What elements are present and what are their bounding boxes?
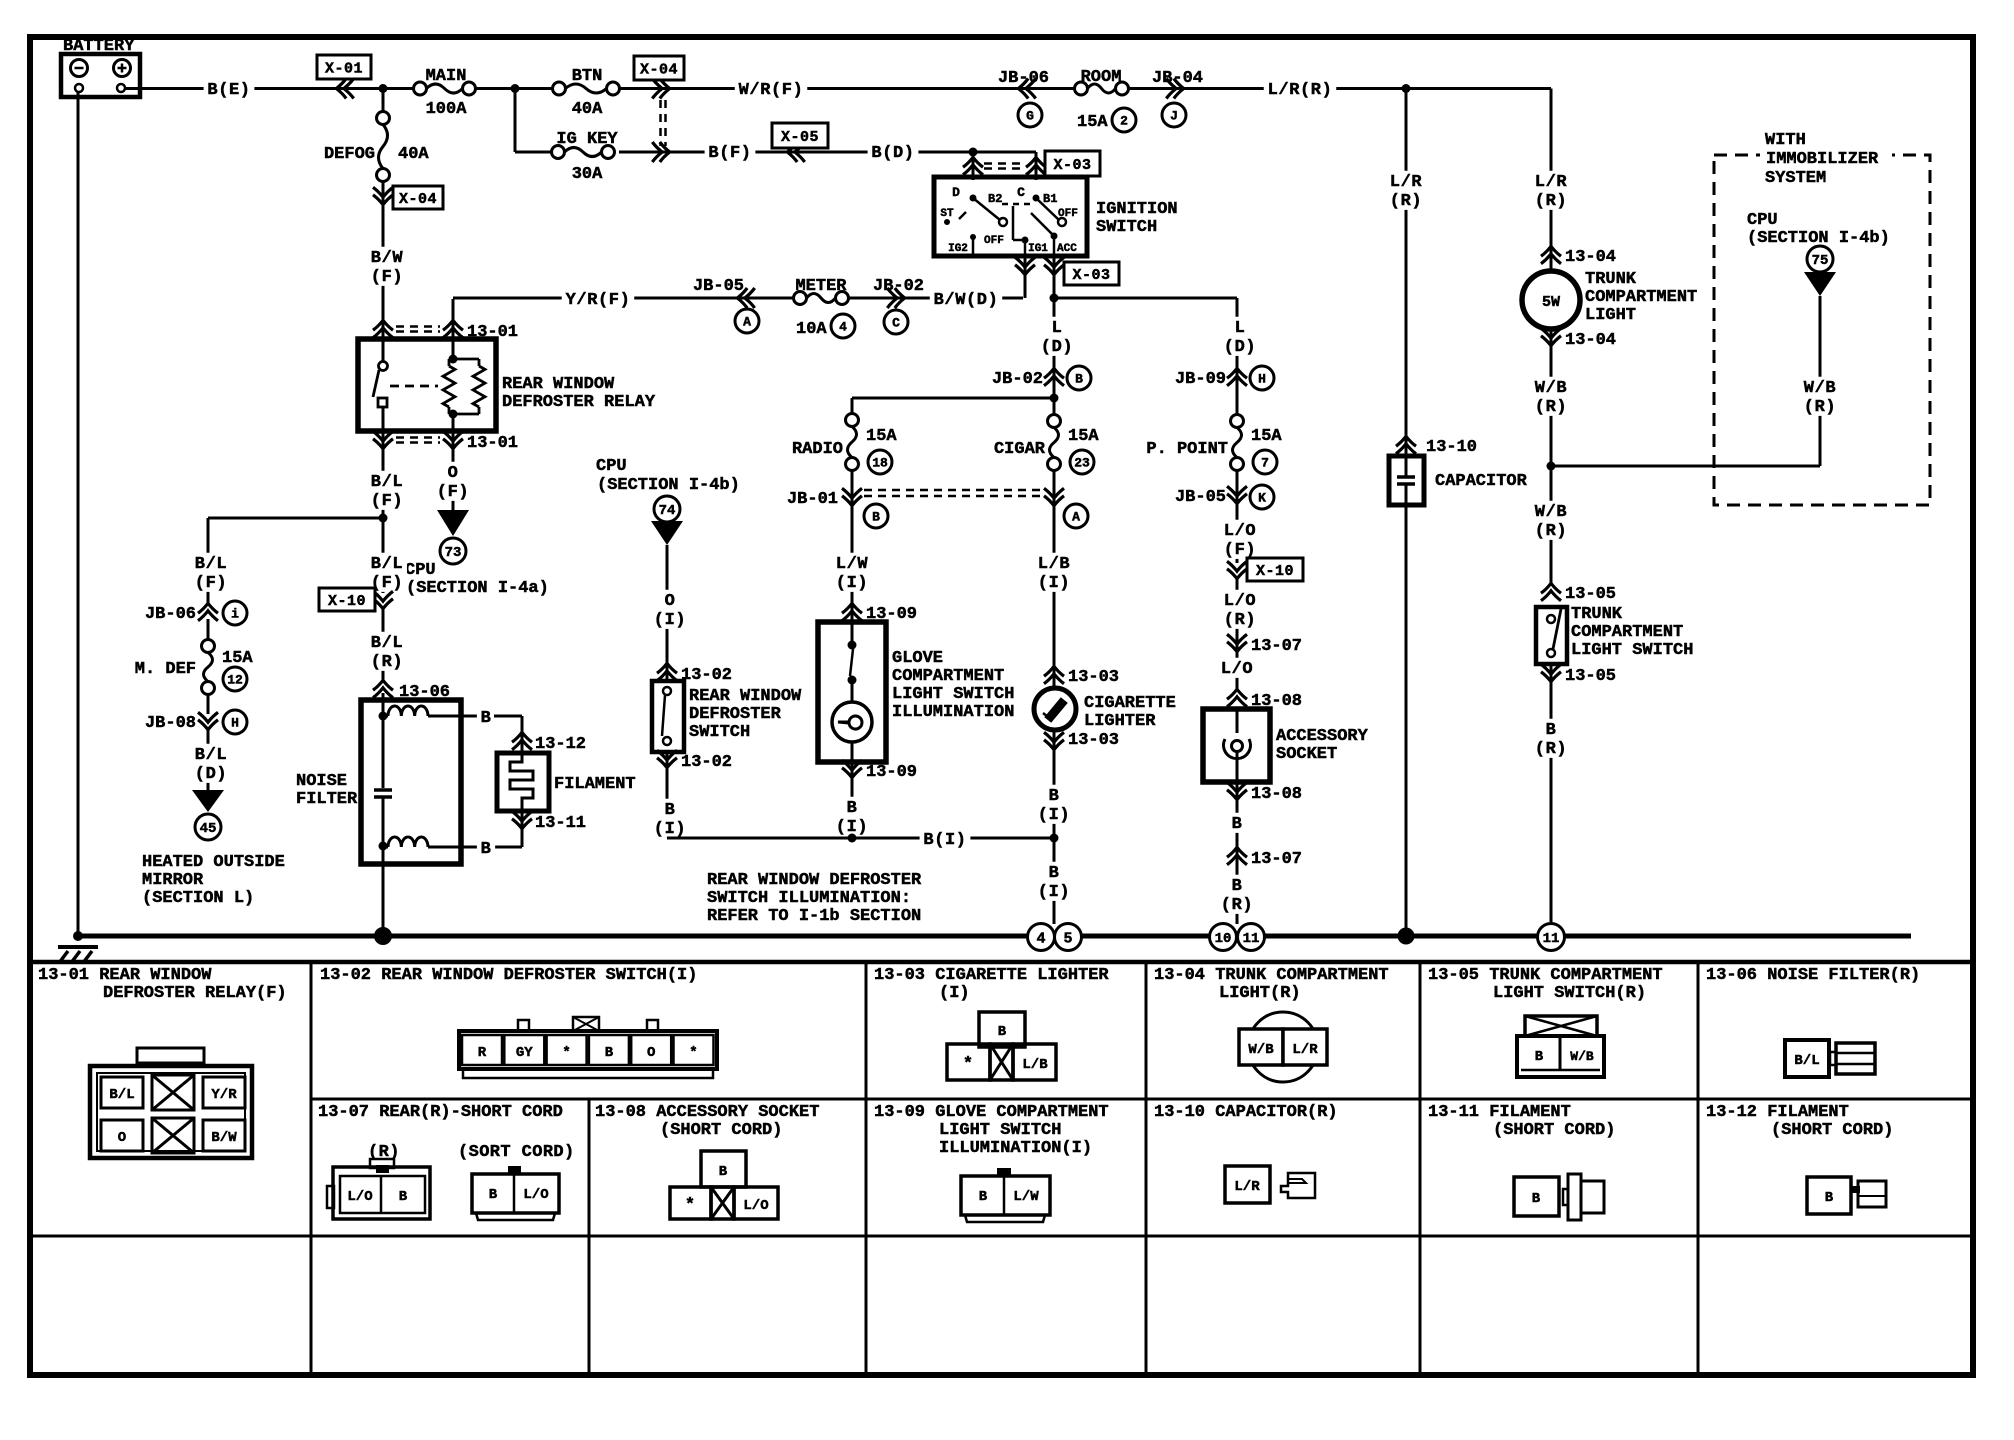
svg-text:B: B [481, 840, 492, 859]
cigarette lighter [1034, 688, 1176, 731]
connector X-04 (DEFOG branch) [373, 181, 443, 243]
svg-text:X-03: X-03 [1072, 267, 1110, 284]
svg-text:B: B [399, 1189, 408, 1205]
svg-text:IG2: IG2 [948, 243, 968, 255]
wire label Y/R(F) [562, 289, 635, 309]
connector 13-02 (top) [657, 663, 732, 685]
svg-text:REFER TO I-1b SECTION: REFER TO I-1b SECTION [707, 907, 921, 926]
svg-text:13-03: 13-03 [1068, 731, 1119, 750]
svg-text:13-02: 13-02 [681, 666, 732, 685]
svg-text:CPU: CPU [596, 457, 627, 476]
wire L(D) cigar column [1037, 298, 1077, 414]
svg-text:(SECTION L): (SECTION L) [142, 889, 254, 908]
svg-text:B1: B1 [1043, 192, 1057, 206]
svg-text:REAR WINDOW DEFROSTER: REAR WINDOW DEFROSTER [707, 871, 922, 890]
svg-text:2: 2 [1120, 114, 1128, 129]
glove compartment light switch illumination box [818, 622, 1014, 762]
svg-text:(D): (D) [1224, 338, 1256, 357]
ground symbol [58, 931, 98, 963]
svg-text:B: B [872, 510, 880, 525]
svg-text:*: * [963, 1055, 973, 1074]
wire label L/O (R) [1220, 590, 1260, 630]
svg-text:(I): (I) [1038, 883, 1070, 902]
svg-text:(R): (R) [1390, 192, 1422, 211]
svg-text:B(I): B(I) [923, 831, 966, 850]
svg-text:4: 4 [839, 320, 847, 335]
svg-text:(SECTION I-4b): (SECTION I-4b) [597, 476, 740, 495]
ground point 4 and 5 [1028, 924, 1082, 951]
svg-text:B: B [1232, 877, 1243, 896]
svg-text:73: 73 [445, 545, 462, 561]
svg-text:13-02 REAR WINDOW DEFROSTER SW: 13-02 REAR WINDOW DEFROSTER SWITCH(I) [320, 966, 697, 985]
svg-text:13-08 ACCESSORY SOCKET: 13-08 ACCESSORY SOCKET [595, 1103, 819, 1122]
svg-text:LIGHTER: LIGHTER [1084, 712, 1156, 731]
svg-text:SWITCH: SWITCH [689, 723, 750, 742]
wire label B (R) trunk [1531, 719, 1571, 759]
junction node B/L(F) split [379, 514, 388, 523]
wire B(I) bus [667, 829, 1054, 850]
svg-text:L/O: L/O [743, 1198, 768, 1214]
svg-text:DEFROSTER: DEFROSTER [689, 705, 782, 724]
svg-text:B: B [1049, 864, 1060, 883]
connector X-03 (upper) [963, 151, 1100, 176]
connector X-05 [772, 123, 828, 162]
svg-text:JB-05: JB-05 [693, 277, 744, 296]
svg-text:i: i [231, 607, 239, 622]
fuse CIGAR 15A with circuit 23 [994, 415, 1099, 689]
connector 13-08 (bottom) [1227, 782, 1302, 924]
svg-text:L: L [1052, 319, 1063, 338]
svg-text:(D): (D) [1041, 338, 1073, 357]
noise filter box [296, 693, 478, 864]
wire label L/O (F) [1220, 520, 1260, 560]
svg-text:100A: 100A [426, 100, 468, 119]
svg-text:W/R(F): W/R(F) [739, 81, 804, 100]
wire label B (bottom) [477, 838, 522, 859]
svg-text:13-04: 13-04 [1565, 248, 1616, 267]
svg-text:10A: 10A [796, 320, 827, 339]
svg-text:13-01 REAR WINDOW: 13-01 REAR WINDOW [38, 966, 212, 985]
junction block JB-01 with pin B [787, 488, 1040, 528]
fuse IG KEY 30A [552, 130, 619, 184]
svg-text:13-02: 13-02 [681, 753, 732, 772]
svg-text:B: B [719, 1164, 728, 1180]
svg-text:10: 10 [1215, 931, 1232, 947]
svg-text:13-07: 13-07 [1251, 850, 1302, 869]
svg-text:Y/R(F): Y/R(F) [566, 291, 631, 310]
svg-text:DEFROSTER RELAY(F): DEFROSTER RELAY(F) [103, 984, 287, 1003]
fuse BTN 40A [553, 67, 620, 119]
svg-text:L/B: L/B [1038, 555, 1070, 574]
wire to immobilizer CPU [1551, 465, 1820, 468]
svg-text:13-07 REAR(R)-SHORT CORD: 13-07 REAR(R)-SHORT CORD [318, 1103, 563, 1122]
wire label L/R(R) [1264, 79, 1337, 99]
wire label B(I) below junction [1034, 862, 1074, 902]
junction block JB-05 with pin A [693, 277, 759, 333]
svg-text:L/W: L/W [1013, 1189, 1039, 1205]
svg-text:DEFOG: DEFOG [324, 145, 375, 164]
svg-text:(I): (I) [939, 984, 970, 1003]
svg-text:MIRROR: MIRROR [142, 871, 204, 890]
svg-text:BTN: BTN [572, 67, 603, 86]
table cell 13-05 TRUNK COMPARTMENT LIGHT SWITCH(R) [1428, 966, 1663, 1077]
junction block JB-08 with pin H [145, 710, 247, 790]
svg-text:B(D): B(D) [871, 144, 914, 163]
svg-text:13-12 FILAMENT: 13-12 FILAMENT [1706, 1103, 1849, 1122]
svg-text:B: B [979, 1189, 988, 1205]
connector X-04 (top row) [634, 56, 684, 146]
connector 13-01 (bottom) [373, 431, 518, 453]
svg-text:A: A [743, 315, 751, 330]
svg-text:B/L: B/L [371, 555, 403, 574]
svg-text:13-10: 13-10 [1426, 438, 1477, 457]
svg-text:O: O [448, 464, 459, 483]
svg-text:13-04 TRUNK COMPARTMENT: 13-04 TRUNK COMPARTMENT [1154, 966, 1389, 985]
svg-text:JB-09: JB-09 [1175, 370, 1226, 389]
svg-text:L/R: L/R [1535, 173, 1568, 192]
battery [61, 37, 140, 97]
junction block JB-06 with pin i [145, 601, 247, 640]
wire B/L to heated mirror branch [208, 517, 383, 520]
ground point 11 trunk [1538, 924, 1565, 951]
svg-text:B: B [1049, 787, 1060, 806]
table cell 13-02 REAR WINDOW DEFROSTER SWITCH(I) [320, 966, 717, 1078]
capacitor box [1389, 456, 1528, 505]
connector 13-02 (bottom) [657, 750, 732, 838]
svg-text:B/L: B/L [195, 555, 227, 574]
svg-text:(R): (R) [1535, 740, 1567, 759]
svg-text:13-09 GLOVE COMPARTMENT: 13-09 GLOVE COMPARTMENT [874, 1103, 1109, 1122]
svg-text:W/B: W/B [1570, 1049, 1594, 1064]
svg-text:D: D [952, 185, 960, 200]
svg-text:(F): (F) [195, 574, 227, 593]
svg-text:(I): (I) [1038, 806, 1070, 825]
svg-text:OFF: OFF [984, 235, 1004, 247]
svg-text:B/W: B/W [211, 1130, 237, 1146]
CPU output 73 (SECTION I-4a) [405, 510, 549, 598]
svg-text:B(F): B(F) [708, 144, 751, 163]
svg-text:IGNITION: IGNITION [1096, 200, 1178, 219]
wire L/R(R) trunk column [1531, 89, 1571, 272]
svg-text:X-10: X-10 [1256, 563, 1294, 580]
svg-text:B: B [1075, 372, 1083, 387]
wire L(D) accessory column [1220, 298, 1260, 414]
svg-text:B(E): B(E) [207, 81, 250, 100]
svg-text:B: B [1825, 1190, 1834, 1206]
svg-text:11: 11 [1243, 931, 1260, 947]
svg-text:13-03 CIGARETTE LIGHTER: 13-03 CIGARETTE LIGHTER [874, 966, 1109, 985]
table cell 13-11 FILAMENT (SHORT CORD) [1428, 1103, 1615, 1220]
svg-text:ACCESSORY: ACCESSORY [1276, 727, 1369, 746]
svg-text:15A: 15A [1068, 427, 1099, 446]
wire label B (I) [650, 799, 690, 839]
svg-text:B/W: B/W [371, 249, 404, 268]
wire capacitor to ground bus [1405, 505, 1408, 936]
svg-text:13-04: 13-04 [1565, 331, 1616, 350]
fuse ROOM 15A with circuit 2 [1075, 68, 1137, 132]
svg-text:B: B [665, 801, 676, 820]
svg-text:JB-02: JB-02 [992, 370, 1043, 389]
svg-text:P. POINT: P. POINT [1146, 440, 1228, 459]
svg-text:RADIO: RADIO [792, 440, 843, 459]
svg-text:13-05 TRUNK COMPARTMENT: 13-05 TRUNK COMPARTMENT [1428, 966, 1663, 985]
svg-text:*: * [689, 1045, 697, 1061]
svg-text:Y/R: Y/R [211, 1087, 237, 1103]
svg-text:B: B [1532, 1191, 1541, 1207]
junction block JB-02 with pin C [873, 277, 924, 334]
wire IG KEY row B(F)/B(D) [515, 89, 973, 153]
junction node capacitor at ground bus [1398, 928, 1415, 945]
rear window defroster switch box [652, 681, 802, 752]
svg-text:L/O: L/O [1224, 592, 1256, 611]
svg-text:FILAMENT: FILAMENT [554, 775, 636, 794]
wire label B(D) [868, 142, 919, 162]
svg-text:(R): (R) [1804, 398, 1836, 417]
wire label B(F) [705, 142, 756, 162]
svg-text:B: B [1535, 1049, 1544, 1065]
wire label W/B (R) lower [1531, 466, 1571, 585]
svg-text:B: B [605, 1045, 614, 1061]
svg-text:L/O: L/O [523, 1187, 548, 1203]
svg-text:(R): (R) [1535, 522, 1567, 541]
svg-text:DEFROSTER RELAY: DEFROSTER RELAY [502, 393, 656, 412]
svg-text:15A: 15A [1251, 427, 1282, 446]
svg-text:X-10: X-10 [328, 593, 366, 610]
svg-text:JB-06: JB-06 [145, 605, 196, 624]
fuse RADIO 15A with circuit 18 [792, 414, 897, 623]
svg-text:(SORT CORD): (SORT CORD) [458, 1143, 575, 1162]
svg-text:13-05: 13-05 [1565, 667, 1616, 686]
svg-text:L/W: L/W [836, 555, 869, 574]
svg-text:R: R [478, 1045, 487, 1061]
wire label B/W (F) [367, 243, 407, 322]
wire label W/B (R) upper [1531, 377, 1571, 417]
svg-text:30A: 30A [572, 165, 603, 184]
svg-text:W/B: W/B [1248, 1042, 1274, 1058]
wire L/R(R) capacitor column [1386, 89, 1426, 457]
svg-text:CIGAR: CIGAR [994, 440, 1046, 459]
wire label O (F) [433, 450, 473, 510]
junction block JB-02 with pin B [992, 366, 1091, 390]
svg-text:IG1: IG1 [1028, 243, 1048, 255]
svg-text:LIGHT SWITCH: LIGHT SWITCH [1571, 641, 1693, 660]
svg-text:B: B [1546, 721, 1557, 740]
wire Y/R(F) B/W(D) row [453, 297, 1023, 300]
connector 13-03 (top) [1044, 666, 1119, 687]
svg-text:SYSTEM: SYSTEM [1765, 169, 1826, 188]
wire B(D) into ignition switch [973, 152, 1036, 180]
junction node glove to B(I) bus [848, 834, 857, 843]
svg-text:(SECTION I-4a): (SECTION I-4a) [406, 579, 549, 598]
svg-text:B: B [998, 1024, 1007, 1040]
svg-text:L/O: L/O [1224, 522, 1256, 541]
connector 13-05 (bottom) [1541, 664, 1616, 923]
svg-text:(I): (I) [654, 611, 686, 630]
svg-text:REAR WINDOW: REAR WINDOW [502, 375, 615, 394]
svg-text:M. DEF: M. DEF [135, 660, 196, 679]
svg-text:W/B: W/B [1535, 503, 1567, 522]
svg-text:13-01: 13-01 [467, 434, 518, 453]
svg-text:L/B: L/B [1022, 1057, 1048, 1073]
wire L(D) to P.POINT branch [1054, 297, 1237, 300]
svg-text:O: O [118, 1130, 126, 1146]
junction node B(D) at ignition switch [969, 148, 978, 157]
svg-text:B/L: B/L [371, 473, 403, 492]
junction node to capacitor branch [1402, 84, 1411, 93]
junction block JB-04 with pin J [1152, 69, 1203, 127]
svg-text:B: B [481, 709, 492, 728]
svg-text:B: B [847, 799, 858, 818]
connector 13-07 (down) [1227, 634, 1302, 656]
svg-text:13-11: 13-11 [535, 814, 586, 833]
svg-text:SWITCH ILLUMINATION:: SWITCH ILLUMINATION: [707, 889, 911, 908]
svg-text:ACC: ACC [1057, 243, 1077, 255]
wire label L/O [1217, 658, 1257, 678]
svg-text:B2: B2 [988, 192, 1002, 206]
connector 13-06 [373, 680, 450, 702]
connector 13-09 (top) [842, 603, 917, 624]
svg-text:LIGHT SWITCH: LIGHT SWITCH [892, 685, 1014, 704]
svg-text:LIGHT: LIGHT [1585, 306, 1636, 325]
svg-text:13-03: 13-03 [1068, 668, 1119, 687]
connector 13-01 (top) [373, 320, 518, 342]
wire label B/L (D) [191, 744, 231, 784]
wire label B (R) [1217, 875, 1257, 915]
svg-text:(SHORT CORD): (SHORT CORD) [660, 1121, 782, 1140]
svg-text:*: * [685, 1196, 695, 1215]
wire to filament [494, 716, 522, 753]
table cell 13-08 ACCESSORY SOCKET (SHORT CORD) [595, 1103, 819, 1219]
svg-text:74: 74 [659, 503, 676, 519]
relay coil [443, 299, 485, 455]
svg-text:13-09: 13-09 [866, 763, 917, 782]
svg-text:LIGHT SWITCH(R): LIGHT SWITCH(R) [1493, 984, 1646, 1003]
svg-text:(SHORT CORD): (SHORT CORD) [1493, 1121, 1615, 1140]
svg-text:X-01: X-01 [325, 60, 363, 77]
accessory socket box [1203, 709, 1369, 782]
svg-text:15A: 15A [866, 427, 897, 446]
svg-text:(F): (F) [437, 483, 469, 502]
connector 13-04 (top) [1541, 246, 1616, 267]
svg-text:O: O [665, 592, 676, 611]
svg-text:13-06 NOISE FILTER(R): 13-06 NOISE FILTER(R) [1706, 966, 1920, 985]
svg-text:X-05: X-05 [781, 129, 819, 146]
wire label L/W (I) [832, 553, 872, 593]
trunk compartment light bulb 5W [1522, 270, 1697, 329]
svg-text:45: 45 [200, 821, 217, 837]
svg-text:ILLUMINATION: ILLUMINATION [892, 703, 1014, 722]
svg-text:TRUNK: TRUNK [1571, 605, 1623, 624]
relay REAR WINDOW DEFROSTER RELAY box [358, 322, 656, 455]
junction node at DEFOG branch [379, 84, 388, 93]
svg-text:13-11 FILAMENT: 13-11 FILAMENT [1428, 1103, 1571, 1122]
wire top bus B(E)/W/R(F)/L/R(R) row [125, 87, 1551, 90]
svg-text:(I): (I) [836, 574, 868, 593]
wire label L/B (I) [1034, 553, 1074, 593]
svg-text:CPU: CPU [1747, 211, 1778, 230]
table cell 13-01 REAR WINDOW DEFROSTER RELAY(F) [38, 966, 287, 1158]
svg-text:C: C [892, 316, 900, 331]
svg-text:(D): (D) [195, 765, 227, 784]
svg-text:13-10 CAPACITOR(R): 13-10 CAPACITOR(R) [1154, 1103, 1338, 1122]
svg-text:L/R: L/R [1292, 1042, 1318, 1058]
wire battery negative to ground bus [77, 92, 80, 936]
wire RADIO branch [852, 398, 1054, 414]
svg-text:(R): (R) [1535, 398, 1567, 417]
svg-text:SWITCH: SWITCH [1096, 218, 1157, 237]
CPU (SECTION I-4b) immobilizer [1747, 211, 1890, 466]
junction node at IG KEY branch [511, 84, 520, 93]
table cell 13-06 NOISE FILTER(R) [1706, 966, 1920, 1077]
svg-text:W/B: W/B [1535, 379, 1567, 398]
svg-text:METER: METER [795, 277, 847, 296]
wire label O (I) [650, 590, 690, 630]
junction block JB-06 with pin G [998, 69, 1049, 127]
wire label B accessory [1228, 813, 1246, 833]
svg-text:(R): (R) [1224, 611, 1256, 630]
svg-text:JB-08: JB-08 [145, 714, 196, 733]
svg-text:L/R(R): L/R(R) [1268, 81, 1333, 100]
svg-text:CAPACITOR: CAPACITOR [1435, 472, 1528, 491]
fuse P.POINT 15A with circuit 7 [1146, 415, 1282, 564]
svg-text:ILLUMINATION(I): ILLUMINATION(I) [939, 1139, 1092, 1158]
svg-text:O: O [647, 1045, 655, 1061]
svg-text:LIGHT(R): LIGHT(R) [1219, 984, 1301, 1003]
wire label B/L (R) [367, 607, 407, 682]
wire label W/B (R) immobilizer [1800, 377, 1840, 417]
svg-text:HEATED OUTSIDE: HEATED OUTSIDE [142, 853, 285, 872]
svg-text:SOCKET: SOCKET [1276, 745, 1337, 764]
connector 13-12 [512, 732, 586, 754]
svg-text:IG KEY: IG KEY [556, 130, 618, 149]
table cell 13-03 CIGARETTE LIGHTER (I) [874, 966, 1109, 1080]
svg-text:JB-01: JB-01 [787, 490, 838, 509]
svg-text:W/B: W/B [1804, 379, 1836, 398]
connector 13-09 (bottom) [842, 760, 917, 838]
svg-text:40A: 40A [398, 145, 429, 164]
connector X-04 (IG KEY row) [652, 142, 662, 162]
svg-text:X-04: X-04 [640, 61, 678, 78]
noise filter bottom coil [379, 837, 479, 936]
table cell 13-10 CAPACITOR(R) [1154, 1103, 1338, 1203]
svg-text:(R): (R) [1221, 896, 1253, 915]
connector 13-08 (top) [1227, 689, 1302, 711]
junction node RADIO branch [1050, 394, 1059, 403]
svg-text:(I): (I) [654, 820, 686, 839]
svg-text:15A: 15A [1077, 113, 1108, 132]
svg-text:C: C [1017, 185, 1025, 200]
svg-text:5W: 5W [1542, 294, 1560, 311]
svg-text:COMPARTMENT: COMPARTMENT [1585, 288, 1697, 307]
svg-text:40A: 40A [572, 100, 603, 119]
junction block JB-01 pin A side [1044, 488, 1088, 528]
svg-text:X-04: X-04 [399, 191, 437, 208]
table cell 13-09 GLOVE COMPARTMENT LIGHT SWITCH ILLUMINATION(I) [874, 1103, 1109, 1222]
svg-text:L: L [1235, 319, 1246, 338]
wire label B/L (F) [367, 450, 407, 518]
immobilizer system dashed box [1714, 155, 1930, 505]
connector 13-03 (bottom) [1044, 730, 1119, 924]
svg-text:L/R: L/R [1234, 1179, 1260, 1195]
connector 13-05 (top) [1541, 583, 1616, 604]
svg-text:(R): (R) [371, 653, 403, 672]
svg-text:13-05: 13-05 [1565, 585, 1616, 604]
table cell 13-04 TRUNK COMPARTMENT LIGHT(R) [1154, 966, 1389, 1082]
svg-text:COMPARTMENT: COMPARTMENT [1571, 623, 1683, 642]
svg-text:75: 75 [1812, 253, 1829, 269]
svg-text:J: J [1170, 109, 1178, 124]
svg-text:B/L: B/L [1794, 1053, 1819, 1069]
